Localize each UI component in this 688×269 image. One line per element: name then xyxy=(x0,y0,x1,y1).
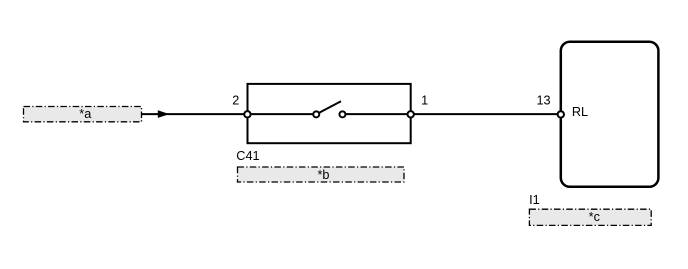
svg-text:*c: *c xyxy=(589,210,601,224)
switch body box (relay block) xyxy=(248,84,411,143)
terminal pin 1 xyxy=(408,111,414,117)
relay I1 body xyxy=(561,42,659,187)
svg-text:*a: *a xyxy=(79,107,92,121)
wire from switch to relay pin 13 xyxy=(342,113,560,115)
switch contact left xyxy=(313,111,319,117)
switch blade xyxy=(316,101,341,114)
label box *a xyxy=(24,107,142,122)
terminal pin 2 xyxy=(244,111,250,117)
svg-text:1: 1 xyxy=(421,94,428,108)
svg-text:RL: RL xyxy=(572,105,588,119)
terminal pin 13 xyxy=(558,111,564,117)
svg-text:*b: *b xyxy=(318,168,330,182)
label box *b xyxy=(238,167,405,182)
svg-text:13: 13 xyxy=(536,94,550,108)
svg-text:I1: I1 xyxy=(529,193,540,207)
switch contact right xyxy=(339,111,345,117)
arrowhead xyxy=(158,110,170,118)
svg-text:C41: C41 xyxy=(236,149,259,163)
wire from *a to connector C41 pin 2 xyxy=(142,113,317,115)
svg-text:2: 2 xyxy=(232,94,239,108)
label box *c xyxy=(529,209,651,225)
